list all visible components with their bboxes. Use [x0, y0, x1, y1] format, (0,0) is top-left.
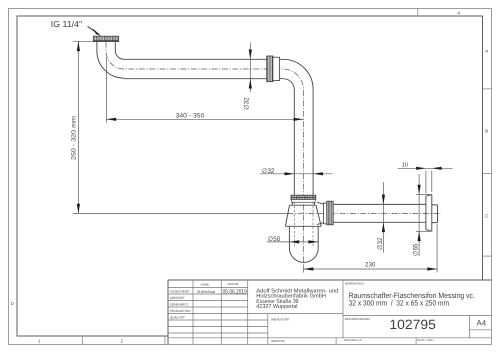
svg-text:10: 10 [402, 161, 408, 168]
wall flange [426, 195, 438, 232]
title block row a4 bottom [470, 329, 492, 331]
svg-text:A4: A4 [477, 318, 487, 327]
title block column line 3 [247, 280, 249, 345]
svg-text:QUALITÄT: QUALITÄT [170, 316, 185, 320]
svg-text:∅65: ∅65 [413, 243, 420, 256]
svg-text:C: C [485, 214, 488, 219]
svg-text:32 x 300 mm / 32 x 65 x 250: 32 x 300 mm / 32 x 65 x 250 mm [349, 299, 450, 308]
centerline inlet-to-siphon [106, 42, 303, 263]
centerline outlet [288, 212, 442, 214]
dim 250-320 mm [70, 41, 289, 213]
svg-text:WERKSTOFF:: WERKSTOFF: [271, 317, 290, 321]
dim d32 vertical pipe [260, 168, 333, 175]
union nut on top pipe [267, 56, 280, 82]
svg-text:ZEICHNUNGSNR:: ZEICHNUNGSNR: [345, 317, 371, 321]
zone tick top [417, 9, 419, 17]
outlet pipe walls [333, 204, 426, 222]
siphon cup [289, 226, 318, 262]
top pipe top wall [124, 58, 283, 60]
svg-text:M.Drenhaus: M.Drenhaus [197, 289, 215, 294]
title block column massstab-blatt [415, 338, 417, 345]
title block column benennung [342, 280, 344, 338]
svg-text:05.06.2019: 05.06.2019 [223, 288, 248, 295]
inlet stub walls [97, 42, 124, 79]
svg-text:B: B [485, 129, 488, 134]
title block row 7 [168, 326, 268, 328]
title block row 8 [168, 332, 268, 334]
svg-text:230: 230 [365, 262, 376, 269]
title block outline [168, 280, 492, 345]
title block row bottom strip [168, 337, 492, 339]
svg-text:340 - 350: 340 - 350 [176, 112, 205, 119]
zone tick bottom 2 [164, 336, 166, 345]
svg-text:102795: 102795 [389, 317, 436, 332]
svg-text:D: D [11, 301, 14, 306]
svg-text:DATUM: DATUM [228, 282, 239, 286]
svg-text:∅32: ∅32 [377, 237, 384, 250]
svg-text:MASSSTAB 1:2.9: MASSSTAB 1:2.9 [344, 339, 362, 342]
vertical pipe right wall [312, 89, 314, 195]
zone tick right 1 [483, 88, 492, 90]
svg-text:IG 11/4": IG 11/4" [51, 19, 82, 29]
dim 230 [304, 224, 438, 273]
svg-text:∅50: ∅50 [268, 236, 281, 243]
svg-text:∅32: ∅32 [244, 97, 251, 110]
siphon top nut [291, 195, 316, 202]
title block column line 4 [267, 314, 269, 345]
siphon neck [292, 202, 314, 205]
right elbow outer wall [283, 59, 313, 89]
title block column line 1 [192, 280, 194, 345]
title block row 5 [168, 313, 343, 315]
dim 10 [398, 161, 453, 193]
title block row header [168, 287, 248, 289]
top pipe bottom wall [124, 78, 283, 80]
right elbow inner wall [283, 79, 294, 90]
svg-text:A: A [485, 49, 488, 54]
svg-text:NAME: NAME [201, 282, 210, 286]
title block column line 2 [220, 280, 222, 345]
title block column a4 [469, 315, 471, 337]
outlet ring [324, 203, 327, 224]
title block row zeichnungsnr [343, 314, 492, 316]
siphon cone [285, 205, 321, 226]
title block row 6 [168, 319, 268, 321]
title block row 2 [168, 293, 248, 295]
svg-text:GENEHMIGT: GENEHMIGT [170, 303, 189, 307]
zone tick bottom [81, 336, 83, 345]
dim d50 [267, 236, 318, 243]
svg-text:42327 Wuppertal: 42327 Wuppertal [256, 303, 297, 310]
title block row 4 [168, 306, 248, 308]
zone tick right 2 [483, 173, 492, 175]
svg-text:BLATT 1 VON 1: BLATT 1 VON 1 [418, 339, 435, 342]
svg-text:GEZEICHNET: GEZEICHNET [170, 290, 190, 294]
dim d32 outlet [377, 182, 385, 253]
svg-text:GEWICHT:: GEWICHT: [271, 339, 285, 343]
svg-text:BENENNUNG:: BENENNUNG: [345, 282, 364, 286]
svg-text:∅32: ∅32 [262, 168, 275, 175]
hidden inner tube dashed [294, 202, 313, 247]
svg-text:250 - 320 mm: 250 - 320 mm [70, 116, 77, 160]
dim d32 top pipe [244, 43, 252, 111]
svg-text:PRODUKTION: PRODUKTION [170, 309, 191, 313]
dim 340-350 [106, 58, 303, 123]
leader IG 11/4 [51, 19, 101, 36]
vertical pipe left wall [293, 90, 295, 196]
outlet cone from body [317, 202, 324, 224]
outlet union nut [327, 201, 333, 225]
svg-text:GEPRÜFT: GEPRÜFT [170, 296, 185, 300]
zone tick right 3 [483, 255, 492, 257]
title block column gewicht-massstab [335, 338, 337, 345]
title block row 3 [168, 300, 248, 302]
inlet nut [93, 36, 118, 41]
dim d65 [413, 174, 431, 256]
